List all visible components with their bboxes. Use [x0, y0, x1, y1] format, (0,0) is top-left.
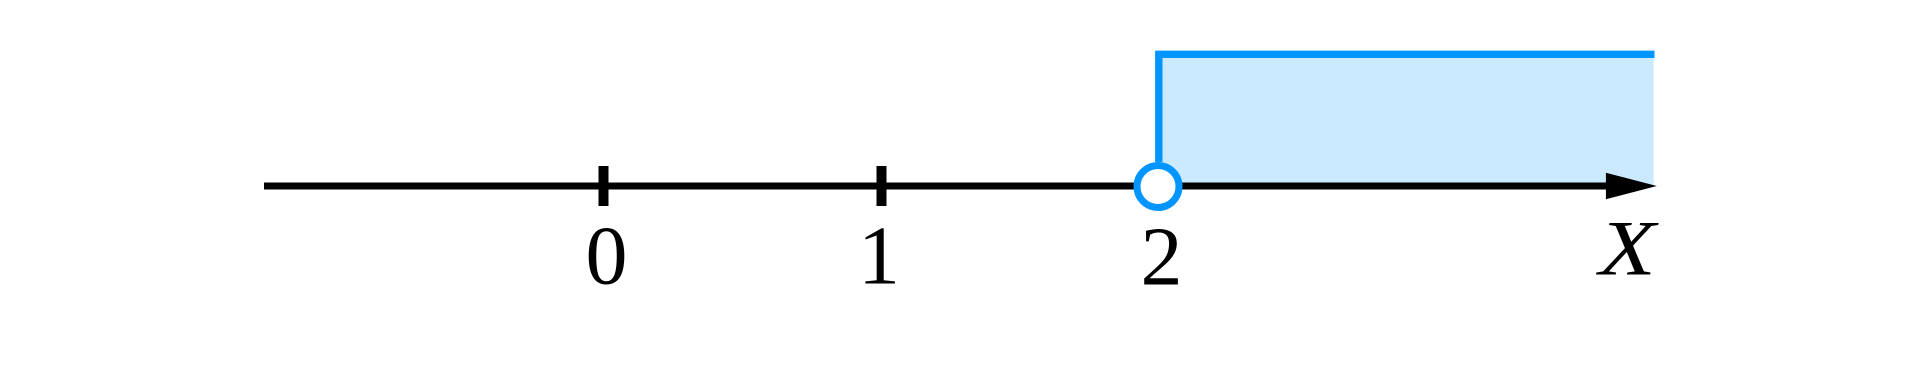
- svg-text:2: 2: [1141, 211, 1183, 304]
- svg-text:X: X: [1596, 205, 1660, 291]
- svg-text:1: 1: [858, 210, 900, 303]
- shaded region border (top + left): [1159, 54, 1655, 162]
- shaded region (2, infinity) fill: [1159, 54, 1654, 186]
- svg-text:0: 0: [586, 210, 628, 303]
- tick 1: [877, 166, 887, 206]
- arrowhead: [1606, 173, 1657, 199]
- axis line: [264, 183, 1630, 190]
- tick 0: [599, 166, 609, 206]
- open circle at 2: [1137, 166, 1179, 208]
